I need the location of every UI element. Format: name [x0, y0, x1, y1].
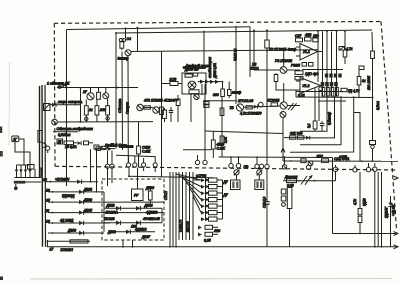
rectifier diode D4: [28, 165, 32, 178]
resistor R35 vertical: [149, 186, 153, 207]
diode VD10: [116, 221, 120, 226]
diode VD2: [52, 103, 56, 107]
connector box PV2: [255, 175, 264, 190]
wire left riser x35: [34, 169, 36, 178]
wire RU feed: [137, 168, 139, 189]
resistor Rx slash box: [339, 47, 345, 51]
resistor R27: [313, 38, 319, 42]
connector box PV1: [231, 175, 241, 190]
small box row17: [70, 240, 88, 243]
diode block upper c: [334, 74, 337, 78]
resistor R28: [341, 88, 360, 93]
wire drop x254: [253, 30, 255, 52]
diode stack right rail: [222, 180, 224, 219]
bundle wire x318: [317, 31, 319, 82]
dashed mid separation line: [55, 166, 396, 170]
diode stack row6: [206, 211, 209, 214]
wire rectifier bottom bus2: [15, 181, 42, 183]
resistor R19: [271, 103, 278, 106]
node top bus x236: [235, 26, 237, 28]
wire left bus C: [44, 85, 47, 247]
small box x361: [359, 66, 364, 70]
small box plus line: [301, 159, 306, 163]
terminal circle T15: [110, 164, 114, 183]
scan artifact faint bottom page edge: [30, 278, 392, 281]
node bundle c: [336, 31, 338, 33]
terminal row 16: [46, 219, 110, 225]
wire u2 out: [321, 85, 323, 87]
wire y155 link: [116, 155, 155, 163]
wire y150 link: [183, 149, 212, 151]
diode VD8: [116, 206, 120, 211]
terminal circle T13: [373, 163, 377, 171]
wire x283 down: [282, 118, 284, 158]
wire relay box to bus b: [132, 240, 134, 248]
node top bus x254: [253, 29, 255, 31]
wire relay row1: [104, 207, 162, 209]
bundle wire w6: [185, 172, 187, 240]
wire left bus A: [39, 86, 41, 177]
terminal circle T3: [229, 156, 233, 168]
wire drop x283: [283, 83, 285, 102]
diode block upper a: [325, 74, 328, 78]
node y157 x284: [284, 156, 286, 158]
diode VD11: [136, 221, 140, 226]
resistor R39 left of stab: [162, 78, 183, 86]
svg-text:0,1: 0,1: [307, 123, 311, 128]
diode stack row3: [206, 192, 209, 195]
svg-text:1к: 1к: [89, 108, 93, 112]
svg-text:Отпуск: Отпуск: [126, 102, 130, 114]
resistor R8 vertical: [84, 100, 88, 122]
resistor R13 vertical: [163, 108, 167, 122]
svg-text:КД105Г: КД105Г: [385, 207, 389, 218]
terminal circle T1: [195, 155, 199, 165]
wire drop x236: [235, 27, 237, 51]
thyristor VS1: [188, 81, 196, 89]
svg-text:1 обмотка ВК: 1 обмотка ВК: [47, 82, 70, 86]
transistor V9: [280, 102, 287, 109]
wire u1 out: [318, 51, 323, 53]
resistor R23: [295, 71, 303, 75]
resistor R26: [305, 37, 312, 41]
small circle bundle: [319, 87, 323, 91]
bundle wire w7: [189, 172, 191, 240]
scan artifact left edge mark middle: [0, 151, 3, 157]
svg-text:4,7к: 4,7к: [353, 199, 357, 205]
relay RU box: [132, 189, 144, 201]
svg-text:уС7Ф5: уС7Ф5: [195, 174, 206, 178]
svg-text:0,02: 0,02: [287, 184, 294, 188]
node y87 x117: [116, 87, 118, 89]
svg-text:15 0,5А: 15 0,5А: [65, 145, 77, 149]
svg-text:33К 300: 33К 300: [290, 132, 302, 136]
rectifier diode D2: [19, 165, 23, 178]
node top bus x204: [203, 31, 205, 33]
svg-text:3ммкф: 3ммкф: [118, 57, 129, 61]
wire relay row2: [104, 222, 162, 224]
node x360 bottom: [359, 233, 361, 235]
resistor R9 vertical: [95, 99, 99, 122]
svg-text:0,5кдмп: 0,5кдмп: [58, 133, 71, 137]
dashed enclosure left edge: [53, 23, 56, 166]
svg-text:4,7к 2Т203БФ: 4,7к 2Т203БФ: [240, 112, 262, 116]
svg-text:27: 27: [82, 90, 87, 94]
bundle wire w5: [182, 172, 184, 240]
node y122 x80: [80, 121, 82, 123]
svg-text:4ТЗ 2Т203Б 4Т.204РР: 4ТЗ 2Т203Б 4Т.204РР: [144, 99, 179, 103]
left lower cluster frame: [281, 188, 292, 209]
svg-text:0,5мм: 0,5мм: [376, 100, 380, 110]
transistor V2: [87, 88, 94, 100]
svg-text:3к: 3к: [362, 79, 366, 83]
wire row y87: [57, 87, 138, 89]
switch contact S2: [257, 170, 263, 176]
wire x315 long drop: [314, 89, 316, 122]
resistor R40 on x161: [160, 107, 164, 115]
terminal row 14: [43, 178, 98, 184]
resistor R24: [295, 76, 303, 79]
svg-text:Обмотка: Обмотка: [118, 99, 122, 113]
svg-text:стабилитрон: стабилитрон: [208, 57, 212, 78]
svg-text:7Д 4,7к: 7Д 4,7к: [348, 89, 360, 93]
wire rectifier bottom bus: [15, 177, 42, 179]
cluster lower wires: [108, 151, 113, 165]
diode stack row2: [206, 185, 209, 188]
svg-text:РУ: РУ: [134, 194, 139, 198]
resistor R16 vertical 300: [221, 82, 225, 97]
svg-text:2Т203Б: 2Т203Б: [267, 99, 281, 103]
wire plus line right: [283, 160, 398, 162]
svg-text:Д7: Д7: [223, 180, 228, 184]
wire corner busA down: [249, 27, 251, 77]
svg-text:10А 100Л: 10А 100Л: [367, 75, 371, 90]
terminal circle T12: [366, 163, 370, 172]
diode VD14: [254, 105, 258, 109]
cluster above T14 box a: [95, 146, 115, 151]
node y97 x372: [372, 97, 374, 99]
resistor R38 vertical: [358, 172, 362, 234]
capacitor C4 circles: [119, 28, 131, 41]
relay contact K1: [57, 85, 66, 89]
svg-text:С.0Ж: С.0Ж: [142, 150, 151, 154]
wire y137: [284, 137, 309, 139]
variable arrow slashes: [288, 103, 297, 110]
node top bus x137: [137, 27, 139, 29]
diode stack row4: [206, 198, 209, 201]
wire y97 stub left: [295, 90, 297, 97]
bundle wire x327: [326, 31, 328, 96]
box armature left: [44, 104, 51, 111]
wire y100 link: [203, 100, 237, 104]
node sensor a: [298, 180, 300, 182]
terminal circle T14: [105, 164, 109, 186]
rectifier diode D1: [15, 165, 19, 178]
wire row y104: [50, 104, 81, 106]
svg-text:Ш: Ш: [58, 140, 62, 144]
resistor R18: [246, 106, 252, 109]
resistor R20 vertical: [220, 136, 224, 145]
resistor R12: [144, 106, 150, 109]
transistor V9b: [280, 112, 286, 118]
stack fan wire 6: [193, 196, 201, 213]
svg-text:Д105: Д105: [83, 208, 92, 212]
svg-text:0,5ммкф: 0,5ммкф: [328, 112, 332, 125]
diode block b: [325, 82, 329, 86]
transistor V4: [52, 119, 58, 125]
wire drop x96 to row13: [96, 149, 98, 193]
diode VD9: [136, 206, 140, 211]
wire stab drop x191: [190, 94, 192, 122]
bundle wire w1: [169, 172, 171, 247]
svg-text:Обмотка возбуждения: Обмотка возбуждения: [57, 127, 93, 131]
svg-text:С4: С4: [127, 37, 131, 41]
resistor R33: [290, 136, 296, 139]
wire relay row3: [110, 231, 155, 233]
svg-text:Д808 0,5А: Д808 0,5А: [213, 63, 217, 79]
relay contact right K2: [370, 141, 376, 162]
svg-text:Д7: Д7: [223, 193, 228, 197]
svg-text:Д108: Д108: [67, 229, 76, 233]
stack fan wire 2: [179, 176, 201, 187]
resistor R22 vertical: [274, 73, 278, 84]
svg-text:ммОЛ4: ммОЛ4: [186, 221, 190, 232]
node second bus x267: [266, 50, 268, 52]
diode stack row1: [206, 179, 209, 182]
node bus x374: [374, 246, 376, 248]
resistor R29 vertical: [343, 50, 347, 64]
wire from 1G down: [15, 142, 30, 165]
svg-text:7В: 7В: [230, 106, 235, 110]
wire mid row y107 right: [244, 106, 281, 107]
svg-text:4ДЗ: 4ДЗ: [305, 33, 312, 37]
svg-text:У1.2: У1.2: [303, 84, 310, 88]
svg-text:СТОП: СТОП: [164, 190, 168, 200]
svg-text:4Д111З: 4Д111З: [135, 228, 147, 232]
svg-text:Д202: Д202: [83, 198, 92, 202]
wire drop x383: [381, 172, 383, 247]
resistor R32 vertical: [313, 121, 317, 131]
svg-text:Д106: Д106: [145, 186, 154, 190]
svg-text:+4Д 10Г: +4Д 10Г: [392, 204, 396, 216]
wire mid row to x296: [287, 105, 300, 107]
small rect f: [309, 63, 314, 67]
resistor R36 shunt: [322, 159, 329, 163]
dashed enclosure right edge: [381, 22, 397, 230]
svg-text:4Д 202Д: 4Д 202Д: [60, 219, 74, 223]
bundle wire x332: [331, 32, 333, 97]
wire cluster drop: [289, 209, 291, 247]
node cascade a: [326, 96, 328, 98]
svg-text:якорь генерат.: якорь генерат.: [57, 100, 83, 104]
diode block upper d: [338, 74, 341, 78]
wire diag link: [205, 131, 283, 134]
small box right: [94, 145, 103, 149]
terminal row 13: [46, 188, 104, 194]
stack fan wire 4: [186, 182, 201, 200]
small transistor V7: [194, 94, 199, 99]
wire relay right riser: [161, 208, 163, 223]
wire from 1G: [19, 139, 24, 165]
bundle wire x322: [322, 31, 324, 96]
resistor R15 bottom inside: [189, 90, 199, 94]
node bus x383: [381, 246, 383, 248]
wire cascade x327: [300, 97, 327, 132]
node x354: [353, 96, 355, 98]
wire left bus B: [41, 85, 44, 247]
resistor R14 top inside: [185, 74, 192, 77]
wire row y122: [57, 121, 153, 123]
resistor R30 vertical 3k: [357, 70, 366, 97]
diode stack left rail: [205, 178, 207, 221]
diode VD15: [78, 141, 82, 145]
node y87 x66: [66, 87, 68, 89]
rectifier diode D3: [24, 165, 28, 178]
node plus x362: [361, 160, 363, 162]
resistor R43: [84, 141, 94, 145]
bundle wire w2: [172, 172, 174, 247]
wire x372 drop: [371, 32, 374, 51]
node sensor b: [314, 180, 316, 182]
transistor V1: [125, 50, 131, 163]
resistor R31 vertical: [371, 51, 375, 98]
wire x332 long: [332, 158, 334, 234]
wire mid drop x122: [121, 52, 124, 151]
terminal circle T2: [203, 131, 207, 165]
scan artifact faint page crease vertical: [8, 62, 11, 145]
transistor V3: [103, 88, 109, 99]
wire x345 drop: [344, 32, 346, 50]
wire drop x90 to row14: [90, 149, 92, 182]
variable slashes sensor: [301, 176, 312, 185]
svg-text:С07: С07: [295, 34, 301, 38]
bundle wire w8: [192, 172, 194, 240]
svg-text:240: 240: [99, 108, 106, 112]
wire x254 to V10: [254, 52, 280, 70]
wire x80 drop: [80, 87, 82, 122]
wire stab drop x205: [204, 84, 206, 131]
transistor V10: [280, 67, 287, 74]
wire drop x116: [115, 33, 117, 149]
box Ш terminal: [57, 139, 63, 144]
wire sensor row: [283, 180, 336, 182]
stack fan wire 1: [176, 174, 201, 180]
transistor V5: [137, 104, 143, 110]
wire cascade x341: [300, 97, 341, 145]
wire bundle link y69: [302, 69, 343, 71]
svg-text:4Ф0Б2А45: 4Ф0Б2А45: [143, 217, 160, 221]
relay enclosure dashed: [102, 179, 164, 240]
diode stack row5: [206, 205, 209, 208]
resistor R34: [298, 136, 304, 139]
svg-text:2БР: 2БР: [316, 155, 324, 159]
resistor R14b: [193, 73, 198, 76]
node y122 x66: [66, 121, 68, 123]
stack fan wire 3: [183, 178, 202, 193]
svg-text:КС168: КС168: [105, 217, 115, 221]
wire L to right arrow: [333, 232, 399, 236]
dashed enclosure top edge: [54, 22, 381, 24]
terminal circle T4: [236, 156, 240, 168]
small circle V15: [259, 102, 264, 107]
small rect pair x204: [204, 102, 209, 108]
svg-text:+12В: +12В: [339, 155, 348, 159]
svg-text:КД202Д: КД202Д: [62, 194, 75, 198]
connector box 1G: [12, 136, 19, 142]
terminal circle T16: [126, 156, 130, 177]
svg-text:0,25: 0,25: [204, 239, 211, 243]
terminal circle T19: [153, 163, 157, 172]
node top bus x116: [115, 32, 117, 34]
node y104 x66: [66, 104, 68, 106]
resistor R10 vertical: [106, 99, 110, 122]
diode stack row7: [206, 218, 209, 221]
wire y157 horizontal: [219, 156, 333, 159]
wire mid row y107 left: [143, 107, 153, 109]
wire plus left stub: [281, 148, 285, 161]
switch contact S1: [234, 170, 240, 176]
ground terminal: [14, 184, 18, 190]
svg-text:1,0к: 1,0к: [224, 137, 228, 143]
node plus x291: [290, 160, 292, 162]
transistor V8: [236, 104, 243, 111]
svg-text:1ДО 4уЗ: 1ДО 4уЗ: [305, 72, 319, 76]
svg-text:17: 17: [50, 248, 54, 252]
svg-text:1Г: 1Г: [13, 137, 18, 141]
diode VD7: [306, 136, 310, 140]
diode VD6 dark: [205, 80, 209, 84]
resistor R11: [64, 141, 77, 145]
resistor R41 on x222: [220, 108, 224, 116]
svg-text:0Д10: 0Д10: [363, 198, 367, 206]
svg-text:КУ202Н: КУ202Н: [61, 248, 74, 252]
terminal circle T9: [306, 165, 310, 169]
wire drop x374: [374, 171, 376, 246]
wire second top bus: [131, 50, 318, 52]
op-amp U2: [296, 78, 321, 94]
bundle wire w3: [175, 172, 177, 247]
capacitor C5: [264, 197, 269, 247]
wire plus feed y97: [296, 96, 373, 99]
node top bus x126: [125, 27, 127, 29]
terminal circle T5: [255, 156, 259, 168]
wire top bus B: [116, 30, 372, 33]
wire cascade x334: [309, 97, 335, 138]
node bus w3: [175, 246, 177, 248]
wire relay left riser: [103, 192, 105, 232]
resistor R5 drop x267: [265, 30, 269, 164]
diode VD13: [388, 196, 392, 247]
svg-text:КЗ 2Т.201Б 4мкф: КЗ 2Т.201Б 4мкф: [269, 48, 296, 52]
resistor R42 mid left: [176, 95, 180, 122]
diode VD6c dark: [215, 80, 219, 84]
component R21 vertical: [211, 132, 215, 159]
svg-text:+КУ202Н: +КУ202Н: [55, 178, 70, 182]
wire R22 to U2: [276, 82, 296, 91]
diode VD5 dark: [200, 80, 204, 84]
connector bars: [322, 88, 338, 97]
wire cascade x354: [290, 97, 354, 152]
wire relay box to bus a: [122, 240, 124, 248]
node bundle b: [326, 31, 328, 33]
wire join rows left: [40, 168, 42, 178]
wire mid drop x161: [161, 52, 163, 178]
svg-text:2ОВ: 2ОВ: [169, 78, 178, 82]
wire horizontal y177: [129, 176, 213, 178]
svg-text:ПВ: ПВ: [244, 165, 249, 169]
node top bus x267: [266, 29, 268, 31]
wire rectifier top link: [17, 164, 31, 166]
